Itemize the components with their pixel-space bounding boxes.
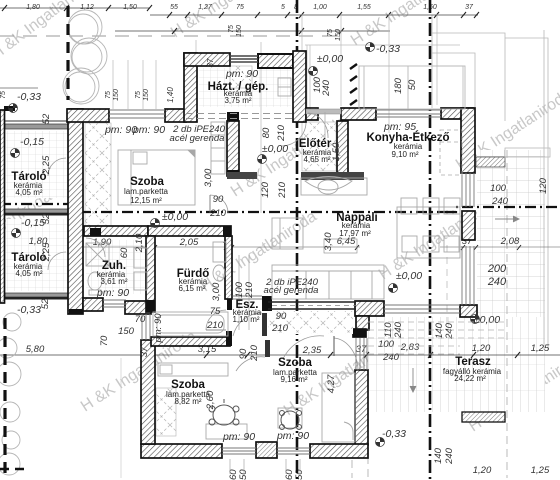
szoba1 wardrobe	[211, 122, 225, 174]
terasz slope arrow	[410, 216, 519, 392]
svg-text:5: 5	[281, 4, 285, 11]
svg-text:120: 120	[538, 177, 549, 194]
front door arc	[308, 113, 328, 138]
svg-text:8,82 m²: 8,82 m²	[174, 397, 201, 406]
svg-text:±0,00: ±0,00	[162, 211, 188, 223]
svg-text:-0,33: -0,33	[376, 43, 400, 55]
szoba2 bed	[322, 373, 355, 442]
front wall konyha piece	[341, 108, 376, 120]
window konyha front	[376, 110, 441, 117]
top dim texts	[26, 4, 474, 11]
sw corner south piece	[83, 298, 103, 311]
szoba2 door arc	[334, 338, 358, 371]
svg-text:4,05 m²: 4,05 m²	[15, 188, 42, 197]
wing west wall	[141, 340, 155, 444]
svg-text:-0,15: -0,15	[20, 136, 44, 148]
level value texts	[17, 43, 500, 440]
furdo right wall	[225, 236, 232, 299]
window hazt top	[230, 56, 258, 62]
svg-text:150: 150	[118, 326, 135, 337]
middle dim line y247	[84, 246, 360, 248]
annex top corner black	[4, 106, 15, 111]
svg-text:75: 75	[236, 4, 244, 11]
dim line row2	[115, 30, 390, 32]
rotated small dims	[40, 58, 549, 465]
svg-text:75: 75	[327, 29, 334, 37]
terasz step hatched	[462, 412, 505, 422]
svg-text:150: 150	[335, 29, 342, 41]
nappali sideboard	[272, 218, 303, 249]
tarolo1 floor grid	[6, 131, 68, 198]
svg-text:50: 50	[238, 469, 249, 480]
svg-text:180: 180	[393, 77, 404, 94]
svg-text:±0,00: ±0,00	[474, 314, 500, 326]
esz top line	[232, 296, 262, 299]
furdo left wall	[146, 236, 155, 312]
axis dash-dot horizontal left annex	[0, 203, 80, 205]
svg-text:1,40: 1,40	[166, 87, 175, 103]
svg-text:210: 210	[277, 181, 288, 199]
tarolo2 floor grid	[6, 219, 68, 291]
svg-text:3,61 m²: 3,61 m²	[100, 277, 127, 286]
zuh floor grid	[86, 240, 145, 294]
svg-text:2,35: 2,35	[302, 345, 322, 356]
east SE corner	[460, 305, 477, 317]
svg-text:pm: 90: pm: 90	[222, 431, 255, 443]
svg-text:90: 90	[213, 194, 224, 205]
svg-text:37: 37	[356, 344, 367, 355]
annex bottom sill band	[5, 293, 69, 297]
szoba1 south wall	[84, 226, 148, 236]
axis dash-dot vertical x=430	[429, 0, 432, 480]
svg-text:200: 200	[487, 263, 507, 275]
svg-text:75: 75	[228, 25, 235, 33]
svg-text:5,80: 5,80	[26, 344, 45, 355]
wing east black block	[353, 329, 366, 337]
zuh door jamb black	[90, 228, 101, 236]
szoba3 door leaf	[265, 340, 270, 357]
wing top wall	[151, 337, 230, 346]
eloter cabinet	[301, 178, 367, 195]
svg-text:80: 80	[261, 127, 272, 138]
eloter konyha wall	[337, 121, 348, 178]
front wall NE piece	[441, 108, 473, 119]
svg-text:±0,00: ±0,00	[317, 53, 343, 65]
svg-text:90: 90	[238, 348, 249, 359]
svg-text:210: 210	[249, 344, 260, 362]
svg-text:1,25: 1,25	[531, 343, 550, 354]
north wall east piece	[165, 109, 186, 122]
svg-text:2,25: 2,25	[41, 155, 52, 175]
szoba2 desk	[278, 408, 302, 428]
svg-text:3,00: 3,00	[203, 168, 214, 187]
svg-text:210: 210	[244, 281, 255, 299]
lintel bar east	[476, 157, 505, 167]
zuh basin fixtures	[134, 248, 147, 268]
gray dashed setback line top	[0, 35, 345, 37]
konyha counter dashed	[440, 130, 462, 175]
svg-text:pm: 90: pm: 90	[276, 430, 309, 442]
svg-text:1,10 m²: 1,10 m²	[232, 315, 259, 324]
north wall west piece	[67, 109, 109, 122]
szoba1 east wall	[227, 121, 239, 176]
zuh shower	[86, 243, 109, 266]
tarolo2 door	[48, 252, 66, 270]
svg-text:37: 37	[139, 346, 150, 357]
dim extension verticals top	[113, 14, 437, 133]
svg-text:75: 75	[105, 91, 112, 99]
hazt right wall	[293, 51, 306, 122]
svg-text:240: 240	[444, 447, 455, 465]
eloter zone	[302, 122, 336, 171]
svg-text:100: 100	[490, 183, 507, 194]
front door sill	[306, 109, 341, 114]
svg-text:240: 240	[321, 79, 332, 97]
dining chairs bottom	[402, 236, 417, 252]
svg-text:acél gerenda: acél gerenda	[264, 285, 319, 296]
hazt cabinet zone	[230, 66, 252, 88]
furdo top wall	[148, 226, 231, 236]
svg-text:2,10: 2,10	[134, 233, 145, 253]
svg-text:75: 75	[0, 91, 7, 99]
terasz paving	[368, 317, 545, 412]
svg-text:1,20: 1,20	[472, 343, 491, 354]
window north-west	[109, 110, 165, 118]
furdo door	[206, 310, 226, 330]
svg-text:210: 210	[206, 320, 224, 331]
east wall mid pier	[462, 211, 475, 240]
short solid line top left	[0, 87, 38, 89]
hallway door arc	[283, 336, 324, 359]
svg-text:60: 60	[119, 247, 130, 258]
hazt door arc	[282, 123, 306, 146]
east strip paving	[477, 150, 545, 317]
svg-text:2,08: 2,08	[500, 236, 520, 247]
eloter south bar west	[227, 172, 257, 179]
svg-text:24,22 m²: 24,22 m²	[454, 374, 486, 383]
svg-text:1,25: 1,25	[531, 465, 550, 476]
property dashed line bottom-left	[3, 318, 6, 480]
trees top-left	[63, 10, 107, 104]
svg-text:9,10 m²: 9,10 m²	[391, 150, 418, 159]
wing south wall west	[141, 444, 222, 458]
wing south window2	[277, 448, 310, 454]
hazt floor grid	[199, 68, 291, 107]
nappali sofa	[272, 265, 384, 299]
szoba3 chair	[209, 399, 239, 425]
annex mid wall line	[4, 213, 69, 216]
axis dash-dot vertical x=297	[296, 0, 299, 480]
svg-text:1,55: 1,55	[357, 4, 371, 11]
bottom terasz dim texts	[473, 465, 550, 476]
annex bottom wall line	[5, 297, 69, 300]
svg-text:pm: 90: pm: 90	[96, 287, 129, 299]
szoba1 door	[210, 195, 228, 213]
svg-text:17,97 m²: 17,97 m²	[339, 229, 371, 238]
svg-text:lam.parketta: lam.parketta	[124, 187, 169, 196]
svg-text:pm: 90: pm: 90	[153, 313, 164, 344]
szoba3 top closet	[158, 363, 228, 376]
dining chairs top	[401, 198, 417, 214]
svg-text:70: 70	[99, 335, 110, 346]
svg-text:90: 90	[276, 311, 287, 322]
hazt south dashed opening	[186, 114, 293, 119]
bushes bottom-left	[0, 313, 21, 475]
szoba1 west column	[85, 123, 111, 226]
hallway beam x-dash	[268, 311, 353, 334]
svg-text:4,27: 4,27	[326, 374, 337, 393]
szoba3 desk	[206, 424, 247, 439]
nappali south beam band	[268, 302, 356, 309]
property dashed line top-left	[66, 6, 69, 100]
svg-text:4,05 m²: 4,05 m²	[15, 269, 42, 278]
szoba1 bed	[118, 150, 195, 205]
property dashed bottom stub	[0, 468, 26, 470]
svg-text:2,83: 2,83	[400, 342, 420, 353]
svg-text:120: 120	[260, 181, 271, 198]
szoba3 door arc	[236, 357, 265, 371]
svg-text:1,27: 1,27	[198, 4, 213, 11]
svg-text:pm: 90: pm: 90	[225, 68, 258, 80]
bottom dim line	[0, 354, 560, 356]
svg-text:-0,33: -0,33	[17, 91, 41, 103]
svg-text:±0,00: ±0,00	[262, 143, 288, 155]
wing south wall east	[310, 444, 368, 458]
svg-text:3,75 m²: 3,75 m²	[224, 96, 251, 105]
svg-text:6,15 m²: 6,15 m²	[178, 284, 205, 293]
rotated dim labels top	[0, 25, 342, 101]
svg-text:150: 150	[236, 25, 243, 37]
wing east upper hatch	[356, 316, 369, 330]
terasz dashed bands	[368, 322, 505, 354]
svg-text:3,00: 3,00	[211, 282, 222, 301]
front wall door jamb	[306, 108, 318, 120]
roof outline corners top right	[432, 15, 548, 350]
svg-text:140: 140	[433, 447, 444, 464]
zuh toilet	[88, 272, 102, 290]
svg-text:240: 240	[487, 276, 507, 288]
tarolo1 door	[48, 158, 66, 176]
axis jog	[446, 207, 560, 212]
entrance steps ticks	[350, 64, 357, 105]
main west wall	[68, 109, 83, 314]
wing entry door arc	[233, 313, 262, 336]
annex mid sill band	[4, 209, 69, 213]
dim line row1	[0, 7, 150, 9]
svg-text:210: 210	[276, 124, 287, 142]
svg-text:240: 240	[444, 322, 455, 340]
svg-text:52: 52	[41, 213, 52, 224]
eloter south bar east	[301, 172, 364, 180]
szoba3 wardrobe	[156, 388, 176, 436]
svg-text:1,50: 1,50	[331, 142, 342, 161]
wing east window	[356, 338, 367, 370]
annex top sill band	[5, 124, 68, 129]
szoba1 east wall top cap	[227, 112, 239, 121]
svg-text:9,16 m²: 9,16 m²	[280, 375, 307, 384]
svg-text:1,20: 1,20	[473, 465, 492, 476]
svg-text:150: 150	[143, 89, 150, 101]
svg-text:1,00: 1,00	[313, 4, 327, 11]
ipe notes	[170, 124, 319, 296]
svg-text:70: 70	[135, 314, 146, 325]
svg-text:75: 75	[135, 91, 142, 99]
svg-text:210: 210	[271, 323, 289, 334]
3,40 dim box	[324, 239, 357, 253]
dim ticks row1	[2, 5, 479, 34]
svg-text:150: 150	[113, 89, 120, 101]
hazt appliance	[278, 78, 291, 96]
nappali south L block	[355, 301, 384, 316]
sw window	[103, 300, 126, 307]
furdo toilet	[213, 265, 225, 281]
svg-text:-0,33: -0,33	[17, 304, 41, 316]
svg-text:75: 75	[210, 306, 221, 317]
svg-text:pm: 95: pm: 95	[383, 121, 416, 133]
wing west window	[142, 314, 150, 340]
gray dashed vertical line wing right	[367, 430, 369, 478]
svg-text:50: 50	[407, 79, 418, 90]
window east upper	[462, 173, 474, 207]
svg-text:52: 52	[41, 113, 52, 124]
furdo basin	[213, 242, 226, 262]
szoba2 chair	[280, 411, 302, 430]
svg-text:2,25: 2,25	[41, 242, 52, 262]
nappali south slider	[384, 305, 460, 313]
dining table	[397, 207, 460, 258]
wing nw block	[125, 301, 151, 314]
hazt top wall	[184, 53, 230, 66]
svg-text:3,40: 3,40	[323, 232, 334, 251]
wing south hatch block	[256, 442, 277, 458]
roofline box right of lintel	[505, 148, 550, 157]
svg-text:2,05: 2,05	[179, 237, 199, 248]
window east lower	[462, 246, 474, 305]
svg-text:55: 55	[170, 4, 178, 11]
axis dash-dot horizontal main	[80, 211, 456, 213]
svg-text:12,15 m²: 12,15 m²	[130, 196, 162, 205]
svg-text:pm: 90: pm: 90	[132, 124, 165, 136]
level markers	[9, 43, 480, 447]
hazt left wall	[184, 53, 197, 122]
wing entry door leaf	[262, 313, 267, 336]
annex top edge line	[4, 120, 69, 122]
porch outline rect	[359, 66, 465, 109]
vertical dim lines mid	[239, 255, 249, 330]
furdo bathtub	[153, 312, 228, 336]
svg-text:±0,00: ±0,00	[396, 270, 422, 282]
svg-text:210: 210	[209, 208, 227, 219]
svg-text:4,65 m²: 4,65 m²	[303, 155, 330, 164]
svg-text:52: 52	[40, 298, 51, 309]
wing south window1	[222, 448, 256, 454]
svg-text:100: 100	[378, 339, 395, 350]
wing east wall	[355, 370, 368, 445]
gray dashed vertical line right	[506, 150, 508, 478]
svg-text:1,50: 1,50	[123, 4, 137, 11]
svg-text:2,60: 2,60	[205, 390, 216, 410]
svg-text:240: 240	[491, 196, 509, 207]
svg-text:50: 50	[294, 469, 305, 480]
east wall upper	[461, 108, 475, 173]
svg-text:37: 37	[465, 4, 474, 11]
hazt top right hatch	[258, 54, 293, 68]
wall black caps	[227, 170, 239, 176]
svg-text:37: 37	[206, 58, 215, 67]
svg-text:-0,33: -0,33	[382, 428, 406, 440]
annex left wall	[0, 110, 5, 303]
zuh door	[86, 238, 105, 257]
svg-text:1,80: 1,80	[26, 4, 40, 11]
eloter fan table	[305, 177, 352, 191]
svg-text:acél gerenda: acél gerenda	[170, 133, 225, 144]
